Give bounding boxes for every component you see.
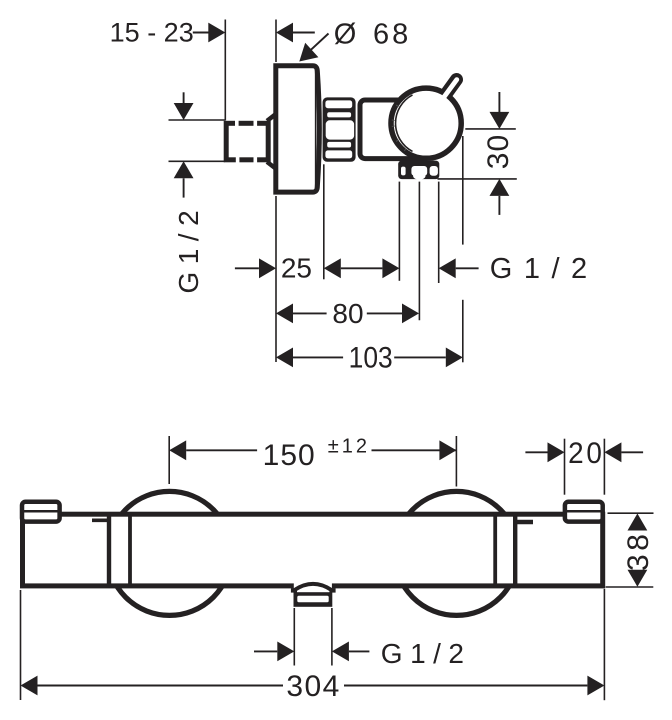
svg-text:G1/2: G1/2 bbox=[173, 203, 204, 294]
thermostat knob (side) bbox=[391, 88, 461, 158]
svg-text:80: 80 bbox=[332, 298, 363, 329]
svg-text:15 - 23: 15 - 23 bbox=[110, 18, 194, 48]
left nut line bbox=[128, 512, 132, 588]
escutcheon side view bbox=[276, 66, 320, 192]
svg-text:±12: ±12 bbox=[328, 435, 370, 457]
svg-text:Ø: Ø bbox=[334, 18, 357, 50]
left end cap tab bbox=[22, 502, 60, 522]
bottom outlet dome bbox=[295, 584, 332, 590]
knob crescent highlight bbox=[396, 95, 413, 152]
hose outlet connector (side) bbox=[398, 161, 439, 180]
svg-text:G1/2: G1/2 bbox=[381, 638, 472, 669]
dimension 15 - 23 bbox=[110, 18, 315, 48]
svg-text:30: 30 bbox=[482, 134, 515, 169]
dimension 80 bbox=[276, 298, 419, 329]
extension line knob front upper bbox=[462, 136, 464, 245]
union nut (ribbed) bbox=[323, 97, 356, 161]
bottom outlet nut frame bbox=[294, 592, 333, 607]
dimension 30 bbox=[482, 92, 515, 215]
escutcheon rim inner line bbox=[315, 69, 317, 189]
svg-text:G1/2: G1/2 bbox=[490, 253, 599, 285]
dimension 20 bbox=[525, 437, 643, 495]
taper to escutcheon top bbox=[267, 114, 276, 121]
extension line wall-side (15-23 left bound) bbox=[224, 20, 226, 121]
pipe nipple square (wall connection) bbox=[226, 123, 268, 160]
svg-text:304: 304 bbox=[286, 670, 341, 703]
dimension 150 +-12 bbox=[169, 435, 456, 486]
right nut line bbox=[493, 512, 497, 588]
svg-text:150: 150 bbox=[263, 439, 316, 472]
extension line knob front lower bbox=[462, 300, 464, 363]
thread dash gaps bbox=[235, 120, 239, 127]
right end cap tab bbox=[565, 502, 603, 522]
left wall escutcheon (front) bbox=[108, 491, 232, 615]
svg-text:38: 38 bbox=[622, 531, 655, 571]
svg-text:103: 103 bbox=[349, 340, 393, 374]
dimension 25 bbox=[235, 253, 400, 284]
left junction line bbox=[107, 512, 111, 588]
svg-text:68: 68 bbox=[373, 18, 411, 50]
mixer bar body bbox=[23, 514, 603, 586]
valve body bbox=[360, 100, 428, 159]
dimension G1/2 bottom bbox=[254, 608, 472, 669]
extension line outlet right bbox=[438, 182, 440, 283]
extension line escutcheon face lower bbox=[275, 196, 277, 362]
dimension G1/2 outlet bbox=[439, 253, 599, 285]
right wall escutcheon (front) bbox=[395, 491, 519, 615]
extension line outlet centre bbox=[418, 182, 420, 321]
G1/2 left (wall connection) dimension bbox=[169, 92, 226, 293]
svg-text:20: 20 bbox=[568, 437, 605, 470]
bottom outlet: erase bar edge bbox=[294, 583, 332, 593]
dimension 30 extension bottom bbox=[438, 178, 517, 180]
dimension 304 bbox=[21, 589, 605, 703]
leader line for diameter 68 bbox=[306, 34, 329, 55]
extension line escutcheon face upper bbox=[275, 20, 277, 63]
dimension 103 bbox=[276, 340, 463, 374]
dimension 30 extension top bbox=[465, 128, 516, 130]
taper to escutcheon bottom bbox=[267, 162, 276, 169]
right detail dash bbox=[517, 520, 533, 524]
right junction line bbox=[513, 512, 517, 588]
knob knurl ticks bbox=[392, 105, 406, 151]
bottom outlet flange ears bbox=[291, 588, 297, 592]
extension line outlet left bbox=[398, 182, 400, 281]
knob lever tab bbox=[441, 80, 457, 102]
svg-text:25: 25 bbox=[281, 253, 312, 284]
extension line nut face bbox=[323, 164, 325, 279]
lever tab white core bbox=[441, 80, 457, 101]
left detail dash bbox=[92, 518, 109, 522]
dimension 38 bbox=[606, 513, 655, 587]
